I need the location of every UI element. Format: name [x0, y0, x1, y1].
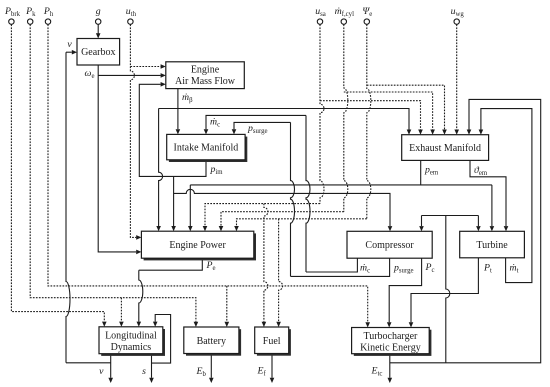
input mdot_f,cyl	[341, 19, 346, 24]
wire u_wg to Exhaust Manifold	[456, 24, 458, 129]
input P_k	[28, 19, 33, 24]
wire omega_e: Gearbox to Engine Air Mass Flow and Engine Power	[98, 65, 136, 252]
wire P_c: Compressor to Turbocharger Kinetic Energy	[389, 258, 421, 322]
wire Psi_e to Exhaust Manifold, Engine Power, Fuel	[367, 85, 445, 129]
input u_wg	[454, 19, 459, 24]
wire mdot_c: Compressor to Intake Manifold	[306, 258, 357, 272]
svg-text:Engine Power: Engine Power	[169, 240, 226, 251]
wire P_t: Turbine to Turbocharger Kinetic Energy	[411, 258, 478, 323]
wire P_e: Engine Power to Longitudinal Dynamics	[139, 259, 203, 271]
svg-text:Longitudinal: Longitudinal	[105, 330, 157, 341]
svg-text:Gearbox: Gearbox	[81, 47, 115, 58]
wire g to Gearbox	[97, 24, 99, 33]
input g	[96, 19, 101, 24]
wire u_sa to Exhaust Manifold, Engine Power, Fuel	[320, 101, 421, 130]
arrowheads of dashed wires	[102, 64, 459, 327]
block Exhaust Manifold	[402, 135, 489, 161]
svg-text:Fuel: Fuel	[263, 336, 281, 347]
wire p_em: Exhaust Manifold to Engine Power and Turbine	[420, 160, 422, 185]
wire E_f: Fuel output	[271, 354, 273, 378]
svg-text:Turbocharger: Turbocharger	[363, 331, 418, 342]
svg-text:Air Mass Flow: Air Mass Flow	[175, 76, 236, 87]
svg-text:s: s	[142, 366, 146, 377]
wire mdot_f,cyl to Exhaust Manifold and Engine Power	[344, 92, 433, 130]
wire P_brk to Longitudinal Dynamics	[11, 24, 104, 321]
wire P_k to Longitudinal Dynamics and Battery	[30, 24, 196, 321]
wire u_th to Engine Air Mass Flow and Engine Power	[130, 66, 160, 68]
block Intake Manifold	[169, 137, 247, 162]
input u_sa	[317, 19, 322, 24]
svg-text:Engine: Engine	[191, 65, 220, 76]
wire mdot_beta: Engine Air Mass Flow to Intake Manifold, Engine Power, Exhaust Manifold	[177, 89, 179, 130]
input Psi_e	[364, 19, 369, 24]
block Engine Air Mass Flow	[166, 62, 245, 89]
svg-text:Kinetic Energy: Kinetic Energy	[360, 342, 421, 353]
wire E_b: Battery output	[210, 354, 212, 378]
wire p_im: Intake Manifold to EAMF, Engine Power, Compressor	[139, 84, 206, 176]
input P_h	[45, 19, 50, 24]
wire P_h to Battery and Turbocharger Kinetic Energy	[48, 24, 368, 322]
svg-text:Turbine: Turbine	[476, 240, 508, 251]
block Turbine	[460, 231, 525, 257]
block Gearbox	[77, 39, 120, 66]
svg-text:Battery: Battery	[197, 336, 226, 347]
svg-text:g: g	[96, 6, 101, 17]
block Battery	[186, 329, 241, 356]
block Engine Power	[144, 233, 256, 260]
svg-text:v: v	[67, 39, 72, 50]
wire E_tc: Turbocharger Kinetic Energy output, feedback to Compressor, Turbine, Exhaust Manifold	[389, 354, 391, 378]
svg-text:Exhaust Manifold: Exhaust Manifold	[409, 143, 481, 154]
wire p_surge: Compressor to Intake Manifold	[291, 258, 390, 276]
block Turbocharger Kinetic Energy	[354, 330, 432, 356]
wire s feedback: Longitudinal Dynamics output loop	[151, 354, 153, 378]
block Fuel	[257, 329, 291, 356]
input u_th	[128, 19, 133, 24]
svg-text:Intake Manifold: Intake Manifold	[174, 143, 239, 154]
wire v feedback: Longitudinal Dynamics to Gearbox	[110, 354, 112, 378]
wire theta_em: Exhaust Manifold to Turbine	[470, 160, 506, 226]
svg-text:Dynamics: Dynamics	[111, 342, 152, 353]
block Longitudinal Dynamics	[101, 329, 165, 356]
input P_brk	[9, 19, 14, 24]
svg-text:v: v	[99, 366, 104, 377]
block Compressor	[347, 231, 432, 258]
wire mdot_t: Turbine to Exhaust Manifold	[481, 109, 532, 283]
svg-text:Compressor: Compressor	[365, 240, 414, 251]
